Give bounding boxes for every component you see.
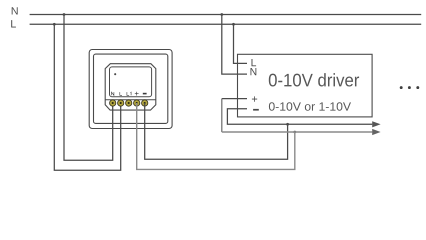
wire N mains bus <box>30 14 422 16</box>
junction dim bus 2 <box>293 131 296 134</box>
terminal label minus bar <box>143 93 147 95</box>
junction N-bus right <box>220 13 223 16</box>
net label L <box>11 20 16 27</box>
wire driver minus to dim bus 1 <box>227 109 372 125</box>
wire L mains bus <box>30 23 422 25</box>
terminal L1 pin 3 <box>126 100 132 106</box>
junction dim bus 1 <box>286 123 289 126</box>
wire dim bus 2 to module plus terminal <box>137 103 295 169</box>
junction L-bus right <box>232 23 235 26</box>
terminal label L <box>120 92 122 95</box>
wire L bus to driver L pin <box>234 24 248 63</box>
junction N-bus left <box>63 13 66 16</box>
wire driver plus down leg <box>221 99 223 132</box>
driver label minus bar <box>253 109 259 111</box>
arrowhead dim bus 1 <box>372 121 380 127</box>
terminal plus pin 4 <box>134 100 140 106</box>
module divider line <box>105 99 156 101</box>
module enclosure inner box <box>94 54 168 123</box>
terminal label N <box>112 92 114 95</box>
module LED dot <box>114 73 116 75</box>
ellipsis dots more drivers <box>400 86 419 89</box>
wire L feed to module terminal L <box>54 24 120 170</box>
terminal label L1 <box>127 92 131 95</box>
terminal N pin 1 <box>110 100 116 106</box>
driver subtitle text <box>269 102 351 111</box>
wire N feed to module terminal N <box>64 15 113 161</box>
wire dim bus 1 to module minus terminal <box>145 103 288 159</box>
driver box U2 <box>238 54 373 117</box>
junction L-bus left <box>53 23 56 26</box>
terminal label plus <box>135 92 139 96</box>
driver label plus <box>252 96 257 101</box>
module U1 octagon body <box>105 64 156 110</box>
terminal L pin 2 <box>118 100 124 106</box>
driver label N <box>251 68 257 75</box>
terminal minus pin 5 <box>142 100 148 106</box>
driver label L <box>252 59 257 66</box>
driver title text <box>269 73 359 86</box>
wire dim bus 2 shaft <box>222 131 372 133</box>
wire driver plus stub <box>222 98 247 100</box>
arrowhead dim bus 2 <box>372 129 380 135</box>
module enclosure outer box <box>89 50 172 129</box>
wire N bus to driver N pin <box>222 15 247 75</box>
module face plate <box>110 67 152 97</box>
net label N <box>12 7 18 14</box>
